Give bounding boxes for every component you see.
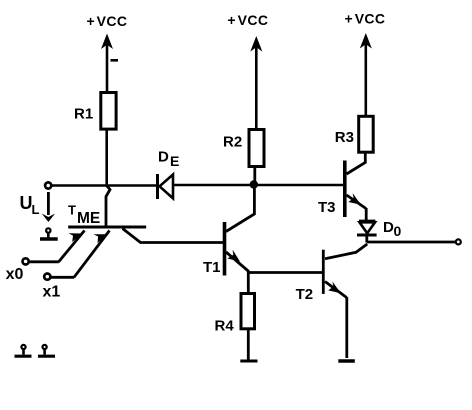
label UL bbox=[20, 193, 40, 217]
svg-text:R3: R3 bbox=[335, 129, 354, 146]
TME emitter 2 bbox=[74, 231, 110, 278]
VCC arrow 1 bbox=[101, 34, 113, 94]
ground R4 bbox=[240, 360, 257, 363]
resistor R2 bbox=[249, 130, 264, 167]
wire bus left bbox=[52, 184, 157, 187]
svg-text:+: + bbox=[87, 13, 95, 29]
svg-text:T2: T2 bbox=[296, 286, 314, 303]
wire T2 emitter down bbox=[345, 297, 348, 358]
transistor T2 bbox=[323, 244, 367, 298]
wire R1 to node bbox=[105, 130, 108, 186]
VCC arrow 3 bbox=[360, 33, 372, 117]
terminal x0 bbox=[23, 258, 29, 264]
wire T3 emitter to D0 bbox=[365, 208, 368, 221]
UL reference terminal bbox=[40, 228, 58, 239]
wire R4 to ground bbox=[247, 328, 250, 361]
svg-text:T3: T3 bbox=[318, 199, 336, 216]
svg-text:+: + bbox=[227, 12, 235, 28]
label DE bbox=[158, 148, 179, 169]
svg-text:T: T bbox=[68, 203, 76, 218]
svg-text:D: D bbox=[383, 219, 394, 236]
ground T2 bbox=[338, 359, 355, 362]
VCC arrow 2 bbox=[250, 36, 262, 130]
label D0 bbox=[383, 219, 402, 239]
svg-text:0: 0 bbox=[394, 223, 402, 239]
svg-text:R4: R4 bbox=[215, 317, 235, 334]
wire R2 to node bbox=[253, 166, 256, 185]
svg-text:R2: R2 bbox=[223, 134, 242, 151]
resistor R4 bbox=[241, 294, 255, 329]
wire output bbox=[367, 241, 455, 244]
svg-text:x1: x1 bbox=[43, 283, 61, 300]
+VCC label 1 bbox=[87, 13, 128, 29]
reference terminal bottom 2 bbox=[38, 345, 55, 356]
transistor T3 bbox=[345, 161, 366, 218]
terminal x1 bbox=[44, 274, 50, 280]
reference terminal bottom 1 bbox=[15, 345, 32, 356]
svg-text:R1: R1 bbox=[74, 105, 93, 122]
wire T1 emitter down to R4 bbox=[247, 271, 250, 292]
wire R3 to T3 collector bbox=[347, 152, 366, 174]
output terminal circle bbox=[456, 239, 461, 244]
wire D0 to output bbox=[365, 235, 368, 243]
resistor R3 bbox=[359, 116, 374, 152]
svg-text:E: E bbox=[170, 153, 179, 169]
wire T1 emitter to T2 base bbox=[249, 271, 323, 274]
diode D0 bbox=[357, 221, 377, 235]
svg-text:VCC: VCC bbox=[238, 12, 269, 28]
svg-text:D: D bbox=[158, 148, 169, 165]
+VCC label 2 bbox=[227, 12, 268, 28]
wire node to T1 collector bbox=[226, 185, 254, 232]
UL arrow down bbox=[42, 192, 55, 222]
svg-text:x0: x0 bbox=[6, 266, 24, 283]
svg-text:VCC: VCC bbox=[97, 13, 128, 29]
svg-text:L: L bbox=[32, 202, 40, 217]
+VCC label 3 bbox=[345, 10, 386, 26]
label TME bbox=[68, 203, 100, 228]
wire bus right bbox=[173, 184, 344, 187]
transistor TME multi-emitter bbox=[68, 185, 223, 243]
svg-text:VCC: VCC bbox=[355, 10, 386, 26]
node A junction dot bbox=[250, 180, 258, 188]
svg-text:ME: ME bbox=[77, 210, 100, 227]
TME emitter 1 bbox=[59, 231, 85, 263]
svg-text:T1: T1 bbox=[203, 259, 221, 276]
input terminal circle bbox=[45, 182, 51, 188]
wire x1 bbox=[50, 276, 74, 279]
minus dash bbox=[111, 59, 119, 62]
svg-text:+: + bbox=[345, 10, 353, 26]
transistor T1 bbox=[225, 222, 249, 276]
wire x0 bbox=[29, 260, 59, 263]
resistor R1 bbox=[101, 93, 116, 130]
diode DE bbox=[158, 174, 174, 199]
